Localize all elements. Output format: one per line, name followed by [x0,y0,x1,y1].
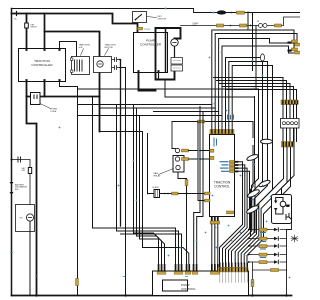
fuse F1 [25,23,29,28]
right connector block [281,100,300,147]
wire left drop to bus [252,262,254,296]
blue dots scattered [59,45,291,284]
connector pair TB [259,24,263,28]
relay contact K1 [175,148,179,152]
connector horn yellow [172,192,179,195]
wire horiz feeder 1 [78,104,212,106]
pump fuse comp 1 [171,58,183,65]
svg-text:SW FU: SW FU [31,27,38,29]
relay bracket [173,156,184,173]
svg-text:IND: IND [15,189,19,191]
pump fuse comp 2 [171,65,183,71]
wire mid run 4 [92,97,94,229]
wire horn feeder [147,134,149,194]
wire B plus tap [16,12,18,16]
wire mid run 5 [100,132,189,264]
horn component [154,190,160,198]
connector TC left top yellow pair [210,149,214,152]
wire top rail [12,9,301,13]
relay contact K3 [176,165,180,169]
svg-text:PUMP: PUMP [144,29,151,31]
wire nest p4 [222,46,294,130]
horn fuse box [31,93,41,105]
connector CN3 yellow [217,24,224,27]
block pins lower [283,128,297,142]
wire rail drop 1 [255,26,257,89]
wire long vertical left of TC 1 [194,107,200,264]
wire rail drop 2 [252,13,254,71]
wires into pump pins from left bundle [93,228,182,264]
wire mid run 2 [133,105,135,234]
pump motor loop [139,28,181,91]
diode D3 [274,201,278,204]
wire key feed [26,14,28,49]
svg-text:CONTROL: CONTROL [214,185,230,189]
svg-text:RELAY: RELAY [154,174,162,177]
wire TC bottom thick drop 2 [44,82,46,97]
power steering box [16,205,35,296]
horn fuse label pointer [40,104,51,109]
horn wire [147,193,210,195]
yellow strip lower [282,142,294,148]
connector housing [281,119,300,129]
relay fan group [172,148,187,263]
wire CN feeder 2 [165,80,255,98]
TC inner labels [214,138,218,147]
fan label pointer [159,169,174,175]
svg-text:SWITCH: SWITCH [158,18,167,20]
wire block down 4 [282,128,295,195]
wire TC pin3 jumper [60,42,77,57]
wire col C [238,158,272,264]
cable tie oval 3 [247,188,261,198]
key switch box [133,12,147,23]
wire col A [232,151,263,264]
wire MT out [287,220,292,230]
wire horiz feeder 2 [100,107,216,109]
wire nest p3 [219,39,294,130]
connector K1 yellow [182,149,189,152]
connector CN2 yellow [237,11,245,14]
svg-text:HORN: HORN [153,187,159,189]
yellow strip upper [281,100,298,105]
wire bottom bus [12,295,292,297]
pump motor M2 [171,39,178,46]
wires TC right edge out [220,162,250,264]
connector oval CN1 [217,11,226,15]
wire TC left stub 2 [198,122,210,201]
contactor coil label [81,49,84,56]
pump controller box [134,33,168,73]
wire pump aux drop [171,122,173,149]
wire accessory rail [181,17,301,26]
pump control right strip [219,263,248,268]
svg-text:MTR: MTR [193,25,198,27]
junction dots bottom bus [35,294,37,296]
MT drive box [272,195,292,224]
wire col E [252,97,255,229]
traction control box right [210,135,235,217]
pin marks traction controller top [26,49,61,82]
pump label CN [138,27,143,30]
traction motor label [105,49,109,56]
wire cap branch [12,160,31,168]
wire contact lower drop [120,68,126,296]
pump strip inner wires [220,272,248,283]
wire contactor branch [45,32,100,57]
connector CN5 yellow [275,24,282,27]
wire horiz feeder 3 [154,111,219,113]
wire nest p7 [232,66,272,158]
wire nest p5 [226,58,263,151]
wire thick corner drop [99,97,101,132]
diode D4 [274,208,278,211]
wire yellow CN run [172,122,253,138]
cable tie oval 2 [261,139,273,143]
TC top connector strip [210,130,234,134]
diode D1 [10,182,14,185]
wire horiz feeder 4 [78,115,223,117]
pin marks pump controller bottom [138,70,160,72]
TC right edge connectors [220,161,239,173]
wire contactor feed [44,14,46,49]
cable tie oval 4 [246,204,260,214]
fuse F2 [28,168,31,174]
wire mid pair [251,146,254,237]
svg-text:CONTROL: CONTROL [181,287,196,291]
key switch label [147,17,157,18]
svg-text:CONTROLLER: CONTROLLER [31,63,53,67]
svg-text:FUSE: FUSE [51,111,57,113]
wire block down 3 [247,147,291,264]
TC bottom pins [211,217,219,222]
svg-text:MOTOR: MOTOR [105,47,114,49]
wire battery negative left vertical [11,9,13,296]
row 4 [250,254,287,256]
wire mid run 3 [136,108,138,236]
pump control top pins left groups [157,264,219,274]
connector CN4 yellow [240,24,247,27]
wire left drop jog [27,97,37,296]
wire nest p6 [229,62,268,154]
wire motor to bus [99,73,101,97]
relay stubs [189,151,211,160]
svg-text:SW: SW [22,170,25,172]
wire nest p2 [215,34,297,130]
cable tie oval vertical [261,54,265,61]
wire long vertical left of TC 2 [197,112,203,264]
wire aux drop [116,105,118,232]
cable tie oval 5 [258,179,271,188]
wire battery positive bus [12,14,138,33]
bottom right diode rows [248,228,288,297]
connector drop yellow [185,180,188,186]
connector inside yellow [227,211,234,214]
wire relay drop [178,172,187,264]
wire bottom row [253,269,287,271]
tick labels scattered [11,253,188,277]
wire nest block feeds [214,78,284,101]
wire MT feed [281,189,283,195]
traction motor M1 [94,57,112,73]
traction controller box [19,49,66,82]
tiny blue labels [220,161,230,172]
diode D2 [10,192,14,195]
wire block down 2 [244,147,287,264]
wire meter feed [29,174,31,205]
nest pins up from TC strip [212,12,297,237]
connector TC left yellow [205,192,211,195]
row 2 [250,238,287,240]
transistor Q1 [286,214,292,220]
svg-text:CONTROLLER: CONTROLLER [140,43,162,47]
svg-text:SOL: SOL [79,47,84,49]
contactor coil T [71,57,90,75]
connector spare yellow [76,279,79,286]
wire col D [255,89,259,233]
blue pin labels above strip [227,115,234,120]
wires TC bottom fan [194,107,218,264]
wire TC bottom thick drop 1 [26,82,28,97]
wire contact upper drop [120,60,121,227]
wire nest p1 [212,30,294,130]
wire spare drop left [77,89,79,296]
wires right columns descend [232,89,295,264]
row 1 [250,229,287,231]
connector K2 yellow [182,158,189,161]
wire rail link [247,12,249,30]
connector ends yellow top right [292,40,298,43]
wire horn bus [27,96,100,98]
wire TC pin3 long run [60,82,259,90]
meter circle [280,201,286,207]
wire block down 1 [241,147,283,264]
row 3 [250,245,287,247]
wire relay feed [172,148,175,150]
left battery column [10,157,32,205]
pump control box [153,271,249,296]
diode bus [286,230,288,296]
relay contact K2 [175,157,179,161]
cable tie oval 1 [246,153,259,161]
wire col B [235,154,267,264]
row 5 [250,261,287,263]
wire top rail connectors [165,8,245,15]
wire x139 drop [139,116,141,240]
block pins upper [283,105,297,119]
starburst mark [291,235,298,242]
capacitor C1 [18,157,21,162]
contact pair S1 [112,58,120,70]
